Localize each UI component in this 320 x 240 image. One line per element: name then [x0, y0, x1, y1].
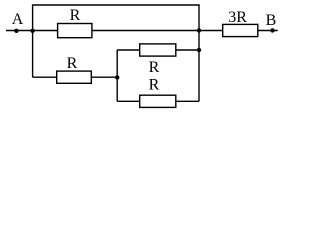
resistor R3: [140, 44, 176, 56]
wire: [32, 5, 34, 77]
resistor R4: [140, 95, 176, 107]
svg-text:A: A: [12, 11, 24, 28]
svg-text:R: R: [149, 76, 160, 93]
wire: [258, 30, 278, 32]
wire: [198, 5, 200, 101]
node A: [14, 29, 18, 33]
wire: [93, 30, 199, 32]
wire: [199, 30, 223, 32]
wire: [117, 100, 139, 102]
svg-text:B: B: [266, 12, 277, 29]
node B: [270, 28, 274, 32]
wire: [117, 49, 139, 51]
wire: [116, 50, 118, 101]
junction: [30, 29, 34, 33]
svg-text:R: R: [67, 55, 78, 72]
resistor R2: [57, 71, 92, 83]
junction: [197, 28, 201, 32]
wire: [91, 76, 117, 78]
resistor R5: [223, 24, 258, 36]
svg-text:R: R: [149, 59, 160, 76]
svg-text:R: R: [70, 7, 81, 24]
wire: [6, 30, 57, 32]
wire: [176, 100, 199, 102]
wire: [176, 49, 199, 51]
resistor R1: [58, 24, 92, 38]
junction: [197, 48, 201, 52]
junction: [115, 75, 119, 79]
wire: [32, 4, 200, 6]
svg-text:3R: 3R: [228, 9, 247, 26]
wire: [33, 76, 57, 78]
